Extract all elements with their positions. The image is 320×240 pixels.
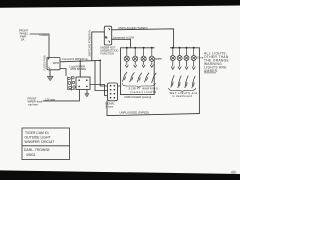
lamp L2 [133,48,138,68]
relay K1 internal marks [48,58,50,69]
label scribble mid 3 [137,73,142,83]
wire connected wiper feed [60,60,100,61]
label scribble right 2 [178,76,181,88]
module U1 corner pins [78,79,87,87]
wire mid lamp bus [121,47,155,49]
wire fused feed [30,34,49,58]
top letterbox bar [0,0,240,8]
svg-text:FUNCTION: FUNCTION [101,52,115,56]
wire switch riser [92,32,105,61]
wire connector feed b [95,61,108,91]
svg-text:DARL. TROWSE: DARL. TROWSE [24,148,50,152]
mid group slanted labels [122,72,156,83]
svg-text:OUTSIDE LIGHT: OUTSIDE LIGHT [25,136,51,140]
pin 3 [109,41,110,42]
pin 1 [109,28,110,30]
svg-text:UNPLUGGED (TAPED): UNPLUGGED (TAPED) [118,26,148,30]
svg-text:4/5/01: 4/5/01 [26,153,36,157]
relay box K1 [47,58,60,70]
label scribble right 3 [185,76,188,88]
switch box S1 [104,26,111,45]
label scribble mid 2 [130,72,135,82]
svg-text:5A: 5A [21,38,24,42]
svg-text:Fused: Fused [40,33,49,37]
mid group brace [122,83,156,87]
label scribble right 4 [192,76,195,88]
wire module top lead [79,61,81,77]
svg-text:MTR BOARD: MTR BOARD [71,67,87,71]
paper background [0,0,240,180]
svg-text:6V ea: 6V ea [197,56,204,60]
wire connector feed a [100,60,107,86]
wire mid group right side [153,60,155,95]
wire connector feed c [90,85,108,96]
smudge bottom right [231,171,237,174]
bottom letterbox bar [0,170,240,180]
title block text [24,131,54,157]
lamp L4 [149,48,154,68]
svg-text:+up here: +up here [28,102,39,106]
connector J1 pins [110,85,115,99]
right group brace [169,88,196,92]
note all lights amber [204,52,229,74]
lamp L8 [191,48,196,70]
label scribble mid 4 [144,73,149,83]
wire right group drop to bottom [198,48,200,114]
motor terminal scribble cluster M1 [68,76,76,91]
label scribble right 1 [171,75,174,87]
svg-text:12V wire: 12V wire [45,97,56,101]
svg-text:TIGER CAM K1: TIGER CAM K1 [25,131,49,135]
wire bottom return [107,101,199,116]
svg-text:W/WIPER CIRCUIT: W/WIPER CIRCUIT [25,140,55,144]
wire unplugged top rail [112,29,174,48]
svg-text:Connect’d WIPER sw: Connect’d WIPER sw [62,57,88,61]
right group slanted labels [171,75,195,88]
svg-text:(marker) LIGHTS: (marker) LIGHTS [130,90,157,94]
svg-text:Jumpered (+12V): Jumpered (+12V) [113,36,135,40]
svg-text:UNPLUGGED (towing): UNPLUGGED (towing) [124,95,151,99]
svg-text:spare: spare [155,57,162,61]
wire module to panel text [43,89,79,101]
svg-text:SWITCH’D POWER IN: SWITCH’D POWER IN [88,30,92,57]
ground arrow under module [86,89,88,93]
label scribble mid 5 [152,73,157,83]
wire mid group bottom [121,94,155,96]
ground arrow under relay [49,70,51,77]
svg-text:in dashboard: in dashboard [172,94,192,98]
connector J1 [108,83,118,101]
junction dot feed a [99,60,101,62]
wiper module box U1 [76,77,90,89]
junction dots mid bus [126,47,153,49]
title block [22,128,70,160]
lamp L5 [170,48,175,70]
lamp L7 [184,48,189,70]
pin 2 [105,37,107,39]
lamp L3 [141,48,146,68]
svg-text:FUSED PWR: FUSED PWR [44,55,47,70]
lamp L1 [124,48,129,68]
wire right lamp bus [170,47,199,49]
svg-text:UNPLUGGED (TAPED): UNPLUGGED (TAPED) [120,111,150,115]
wire relay to motor cluster [60,69,66,76]
lamp group mid: lamps L1-L4 with ground arrows [124,48,154,68]
wire mid group left drop [120,48,122,95]
lamp L6 [177,48,182,70]
label scribble mid 1 [122,72,127,82]
lamp group right: lamps L5-L8 with ground arrows [170,48,196,70]
junction dots right bus [172,47,195,49]
wire connector right link [118,85,121,87]
junction dot module lead [79,60,81,62]
svg-text:& runs: & runs [106,105,114,109]
svg-text:AMBER.: AMBER. [204,69,219,73]
wire jumpered rail [112,39,131,48]
svg-text:WPR: WPR [53,61,59,65]
